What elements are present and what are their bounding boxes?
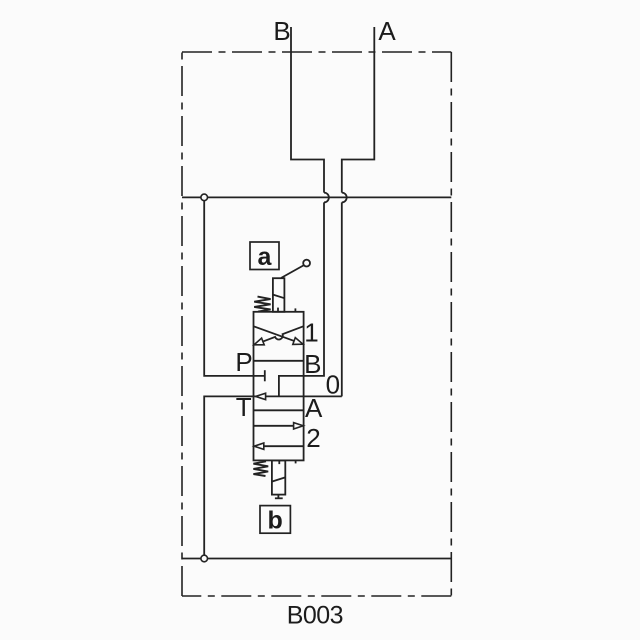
svg-text:P: P [235,347,252,377]
svg-text:B: B [273,16,290,46]
svg-text:A: A [305,393,323,423]
svg-text:b: b [268,507,283,535]
svg-text:2: 2 [306,423,320,453]
svg-text:T: T [236,392,252,422]
svg-text:B: B [304,349,321,379]
svg-text:a: a [258,243,273,271]
svg-text:1: 1 [304,318,318,348]
svg-text:0: 0 [326,369,340,399]
svg-text:A: A [378,16,396,46]
svg-text:B003: B003 [287,602,343,630]
